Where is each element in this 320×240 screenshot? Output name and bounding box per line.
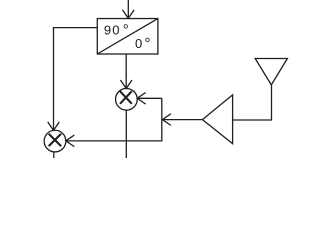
svg-text:9: 9: [104, 22, 111, 37]
svg-text:0: 0: [112, 22, 119, 37]
svg-text:°: °: [145, 35, 151, 52]
svg-text:0: 0: [135, 36, 142, 51]
svg-text:°: °: [123, 21, 129, 38]
